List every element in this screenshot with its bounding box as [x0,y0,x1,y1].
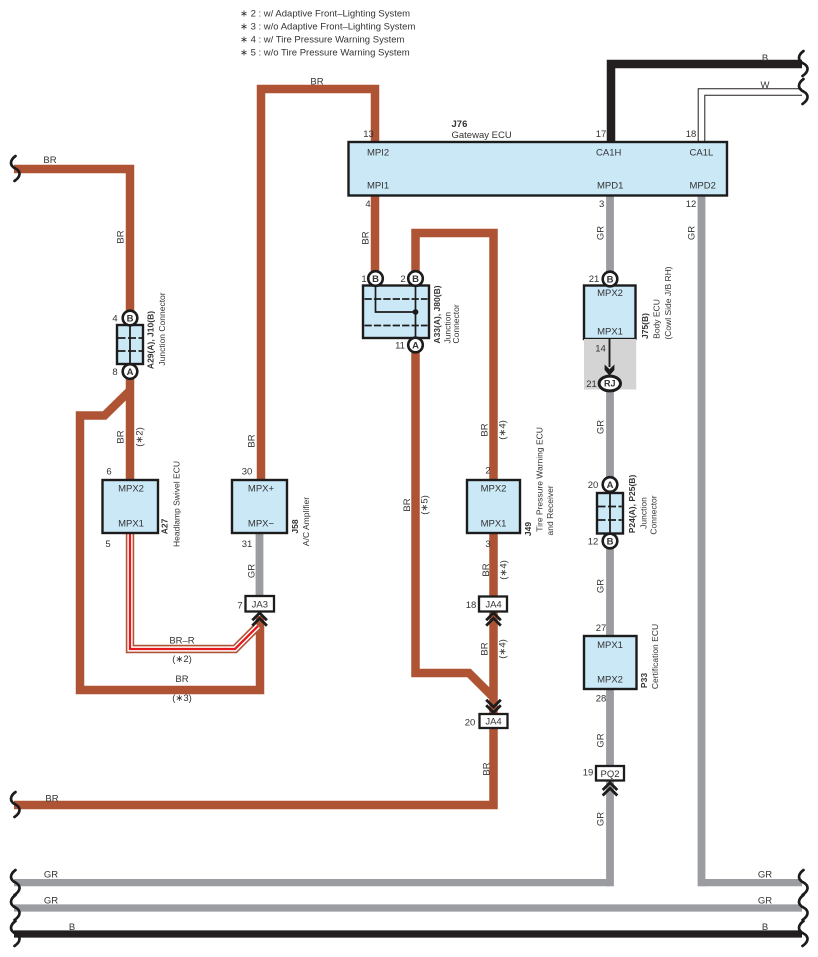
svg-text:BR: BR [115,230,126,243]
svg-text:B: B [607,274,614,285]
svg-text:BR: BR [481,563,492,576]
svg-text:30: 30 [242,467,253,478]
svg-text:B: B [762,922,768,933]
svg-text:MPX1: MPX1 [597,640,623,651]
svg-text:BR: BR [310,77,323,88]
svg-text:MPX2: MPX2 [118,483,144,494]
svg-text:CA1L: CA1L [690,147,714,158]
svg-text:J49: J49 [523,522,533,536]
svg-text:GR: GR [595,812,606,826]
svg-text:Headlamp Swivel ECU: Headlamp Swivel ECU [172,461,182,547]
svg-text:Gateway ECU: Gateway ECU [452,130,512,141]
svg-text:Tire Pressure Warning ECU: Tire Pressure Warning ECU [535,427,545,532]
svg-text:12: 12 [686,199,697,210]
svg-text:(∗4): (∗4) [498,560,509,580]
svg-text:BR: BR [45,793,58,804]
svg-text:BR: BR [43,155,56,166]
svg-text:14: 14 [595,343,606,354]
svg-text:A29(A), J10(B): A29(A), J10(B) [146,311,156,369]
svg-text:A: A [607,480,614,491]
svg-text:5: 5 [105,539,110,550]
svg-text:GR: GR [44,870,58,881]
svg-text:20: 20 [588,480,599,491]
svg-text:A33(A), J80(B): A33(A), J80(B) [432,285,442,343]
svg-text:GR: GR [246,564,257,578]
svg-text:B: B [69,922,75,933]
svg-text:31: 31 [242,539,253,550]
svg-text:A27: A27 [160,518,170,534]
svg-text:3: 3 [599,199,604,210]
svg-text:and Receiver: and Receiver [545,485,555,535]
svg-text:P33: P33 [639,673,649,688]
svg-text:MPI2: MPI2 [367,147,389,158]
svg-text:BR: BR [402,498,413,511]
svg-text:20: 20 [465,717,476,728]
svg-text:A: A [127,367,134,378]
svg-text:MPX+: MPX+ [248,483,275,494]
svg-text:28: 28 [596,694,607,705]
svg-text:P24(A), P25(B): P24(A), P25(B) [627,475,637,534]
svg-text:B: B [607,536,614,547]
svg-text:MPD1: MPD1 [597,180,623,191]
svg-text:B: B [412,274,419,285]
svg-text:B: B [372,274,379,285]
svg-text:(∗2): (∗2) [172,654,192,665]
svg-text:MPX1: MPX1 [118,519,144,530]
svg-text:(∗5): (∗5) [419,495,430,515]
svg-text:MPX2: MPX2 [481,483,507,494]
svg-text:MPX−: MPX− [248,519,275,530]
svg-text:12: 12 [588,537,599,548]
svg-text:21: 21 [586,379,597,390]
svg-text:BR: BR [246,434,257,447]
svg-text:(∗2): (∗2) [134,427,145,447]
svg-text:Certification ECU: Certification ECU [650,624,660,689]
svg-text:BR: BR [481,762,492,775]
svg-text:(Cowl Side J/B RH): (Cowl Side J/B RH) [663,266,673,339]
svg-text:BR: BR [360,231,371,244]
svg-text:11: 11 [395,341,405,352]
svg-text:19: 19 [583,768,594,779]
svg-text:BR: BR [479,423,490,436]
svg-text:B: B [127,313,134,324]
svg-text:2: 2 [400,274,405,285]
svg-text:BR–R: BR–R [169,635,194,646]
svg-text:6: 6 [106,467,111,478]
svg-text:MPX1: MPX1 [481,519,507,530]
svg-text:J58: J58 [290,519,300,533]
svg-text:B: B [762,53,768,64]
svg-text:A/C Amplifier: A/C Amplifier [301,497,311,546]
svg-text:GR: GR [686,226,697,240]
svg-text:J75(B): J75(B) [640,313,650,339]
svg-text:13: 13 [363,129,374,140]
svg-text:GR: GR [595,733,606,747]
svg-text:8: 8 [112,367,117,378]
svg-text:1: 1 [361,274,366,285]
svg-text:3: 3 [485,539,490,550]
svg-text:RJ: RJ [604,379,616,389]
svg-text:J76: J76 [452,119,468,130]
svg-text:MPD2: MPD2 [690,180,716,191]
svg-text:JA4: JA4 [485,600,501,611]
svg-text:PQ2: PQ2 [600,769,619,780]
svg-text:Junction Connector: Junction Connector [157,292,167,365]
svg-text:MPX2: MPX2 [597,674,623,685]
svg-text:7: 7 [237,600,242,611]
svg-text:18: 18 [686,129,697,140]
svg-text:GR: GR [758,870,772,881]
svg-text:27: 27 [596,623,607,634]
svg-text:CA1H: CA1H [596,147,621,158]
svg-text:MPX1: MPX1 [597,327,623,338]
svg-text:BR: BR [175,674,188,685]
svg-text:∗ 2 : w/ Adaptive Front–Lighti: ∗ 2 : w/ Adaptive Front–Lighting System [240,8,410,19]
svg-text:GR: GR [595,420,606,434]
svg-text:MPI1: MPI1 [367,180,389,191]
svg-text:GR: GR [44,896,58,907]
svg-text:GR: GR [595,226,606,240]
svg-text:Body ECU: Body ECU [652,299,662,339]
svg-text:(∗4): (∗4) [497,420,508,440]
svg-text:JA3: JA3 [252,600,268,611]
svg-text:A: A [412,340,419,351]
svg-text:JA4: JA4 [485,717,501,728]
svg-text:∗ 5 : w/o Tire Pressure Warnin: ∗ 5 : w/o Tire Pressure Warning System [240,48,410,59]
svg-text:18: 18 [466,600,477,611]
svg-text:BR: BR [479,642,490,655]
svg-text:Connector: Connector [451,304,461,343]
svg-text:21: 21 [589,274,600,285]
svg-text:BR: BR [115,430,126,443]
svg-text:W: W [761,80,770,91]
svg-text:Connector: Connector [649,495,659,534]
svg-text:GR: GR [758,896,772,907]
svg-text:17: 17 [596,129,607,140]
svg-text:∗ 3 : w/o Adaptive Front–Light: ∗ 3 : w/o Adaptive Front–Lighting System [240,22,415,33]
svg-text:∗ 4 : w/ Tire Pressure Warning: ∗ 4 : w/ Tire Pressure Warning System [240,34,404,45]
svg-text:4: 4 [365,199,370,210]
svg-text:(∗3): (∗3) [172,693,192,704]
svg-text:4: 4 [112,314,117,325]
svg-text:GR: GR [595,579,606,593]
svg-text:2: 2 [485,466,490,477]
svg-text:Junction: Junction [639,497,649,529]
svg-text:MPX2: MPX2 [597,288,623,299]
svg-text:(∗4): (∗4) [497,639,508,659]
